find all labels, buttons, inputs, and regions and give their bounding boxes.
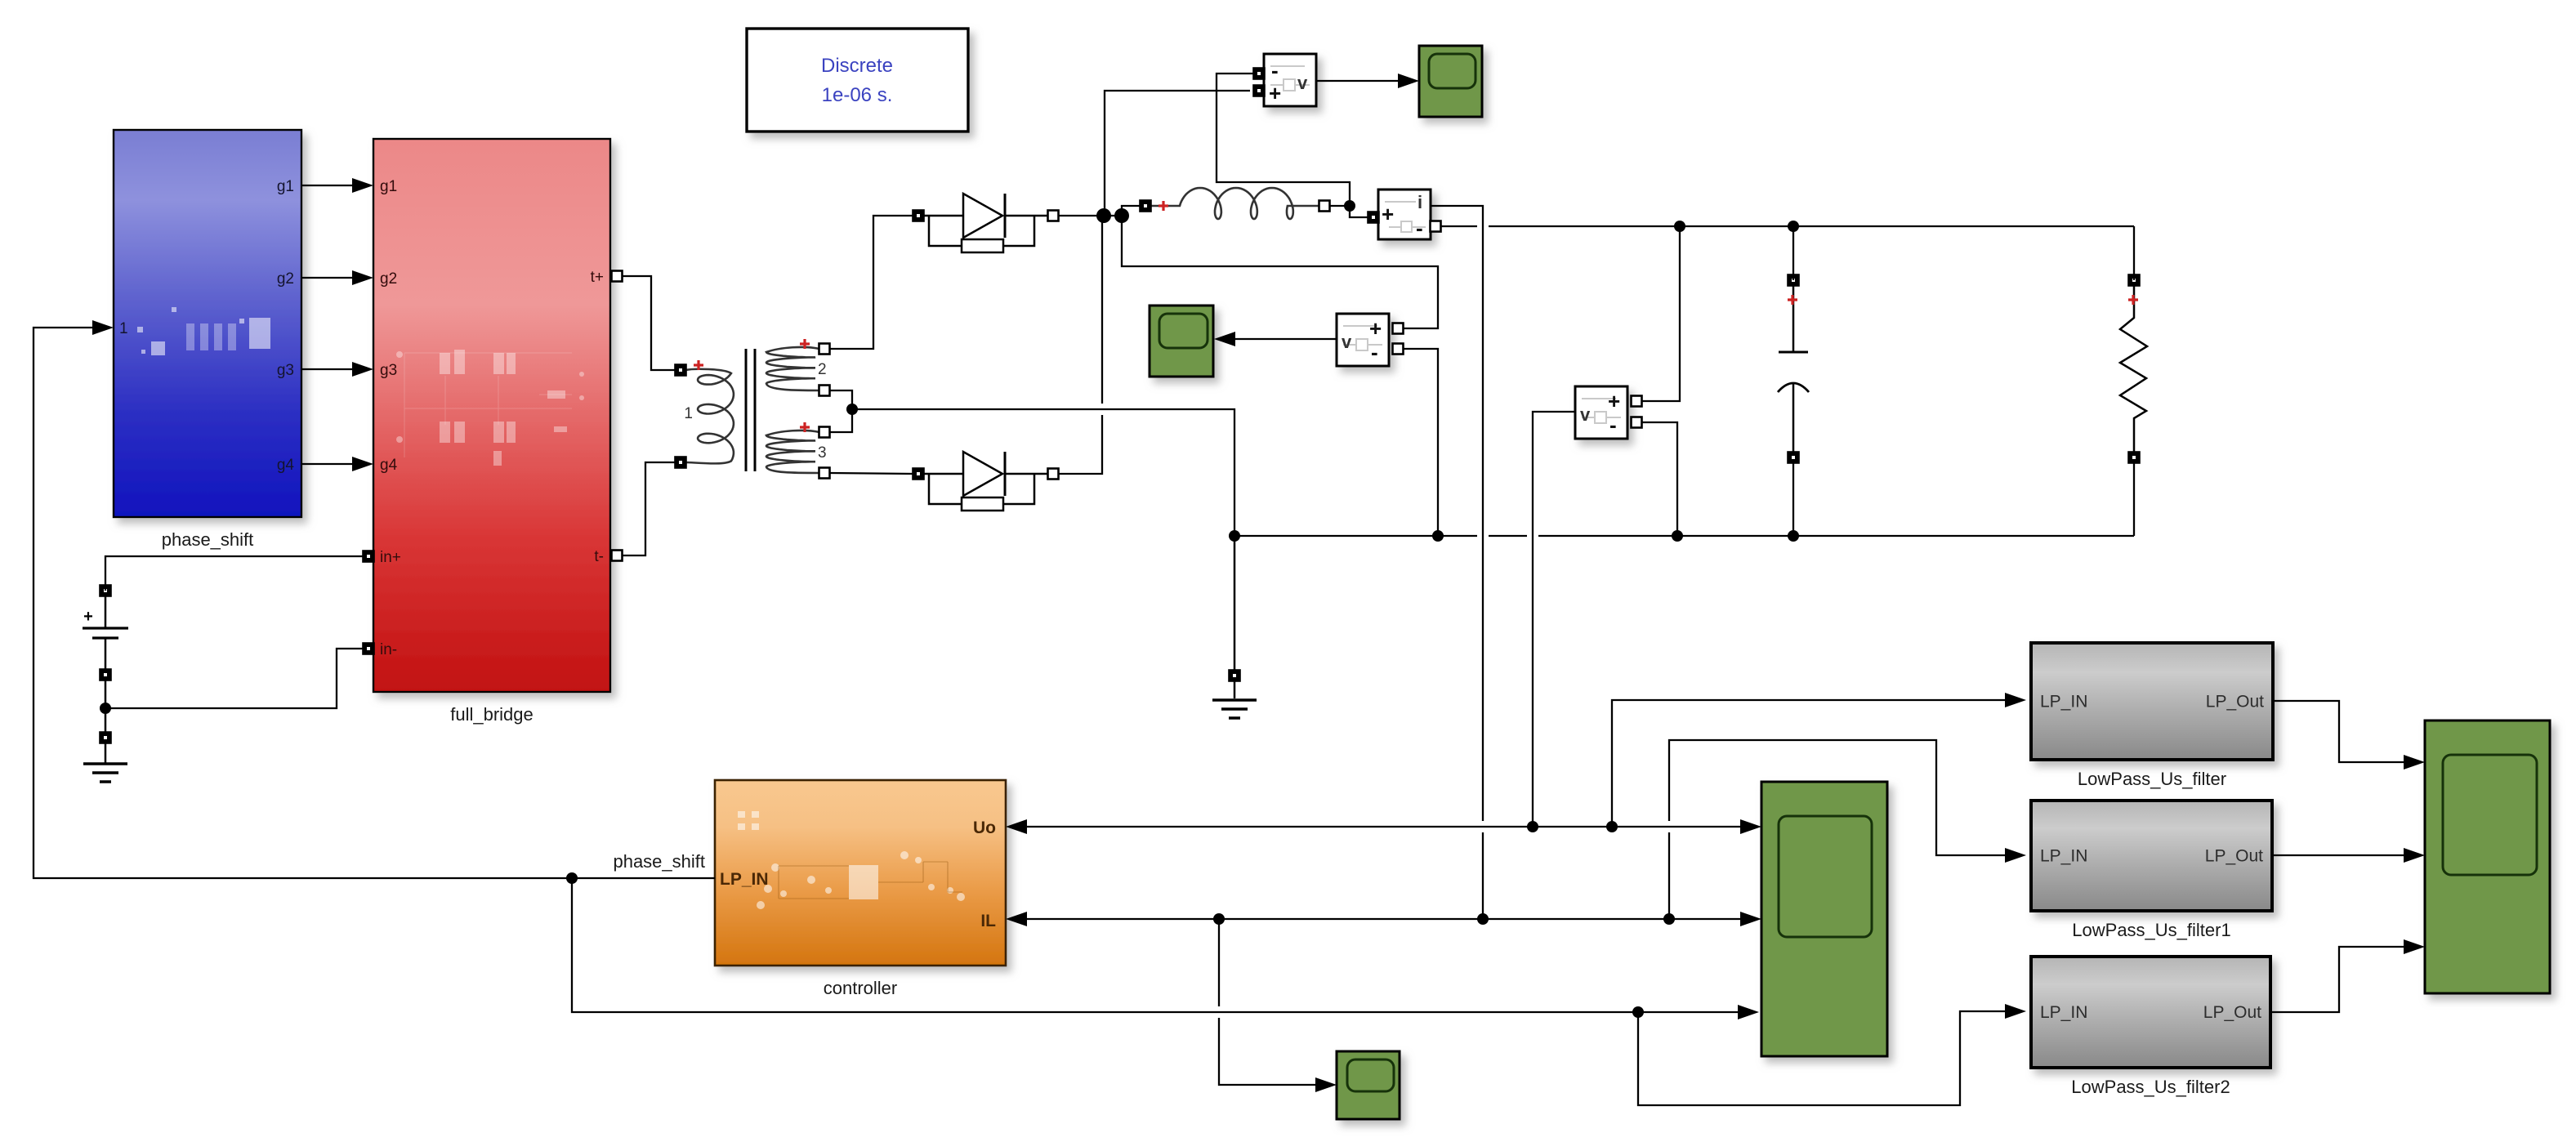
transformer T1 secondary winding, pin 3 bbox=[766, 422, 830, 479]
svg-text:in+: in+ bbox=[380, 549, 401, 566]
wire node A down to voltmeter U2 + bbox=[1122, 216, 1438, 328]
arrowhead into Scope2 (right side input) bbox=[1214, 332, 1235, 346]
port full_bridge t+ bbox=[612, 271, 623, 282]
svg-text:IL: IL bbox=[980, 912, 996, 930]
svg-text:g2: g2 bbox=[277, 270, 294, 288]
svg-text:1e-06 s.: 1e-06 s. bbox=[822, 84, 893, 106]
resistor R1 (load) bbox=[2120, 275, 2147, 463]
wire IL signal line bbox=[1011, 918, 1756, 920]
arrowhead into LowPass_Us_filter1 LP_IN bbox=[2005, 848, 2026, 863]
arrowhead into Scope4 input 1 bbox=[1740, 819, 1761, 834]
arrowhead into controller Uo bbox=[1006, 819, 1027, 834]
node IL at i output (junction) bbox=[1477, 913, 1489, 925]
svg-text:t-: t- bbox=[594, 548, 604, 565]
subsystem block controller bbox=[715, 780, 1006, 966]
capacitor C1 bbox=[1778, 275, 1809, 463]
svg-text:in-: in- bbox=[380, 641, 397, 658]
node IL branch to scope3 (junction) bbox=[1213, 913, 1225, 925]
svg-text:g3: g3 bbox=[380, 362, 397, 379]
svg-text:+: + bbox=[1608, 389, 1620, 413]
wire node A to D2 cathode (lower) bbox=[1058, 415, 1102, 474]
svg-text:g1: g1 bbox=[277, 178, 294, 195]
svg-text:+: + bbox=[83, 608, 93, 626]
voltage measurement U3 (output voltage Uo) bbox=[1575, 386, 1627, 439]
svg-text:-: - bbox=[1371, 340, 1378, 364]
wire D1 cathode to node A bbox=[1058, 215, 1122, 216]
svg-text:v: v bbox=[1297, 73, 1308, 93]
node IL branch to filter1 (junction) bbox=[1663, 913, 1675, 925]
ground G1 bbox=[83, 680, 127, 782]
wire I1 - to output + rail (left) bbox=[1440, 225, 1477, 227]
svg-text:-: - bbox=[1271, 58, 1279, 83]
node node B (junction) bbox=[1344, 200, 1355, 212]
wire phase_shift signal branch down bbox=[572, 878, 1753, 1012]
subsystem block LowPass_Us_filter1 bbox=[2031, 801, 2272, 911]
arrowhead into phase_shift input 1 bbox=[92, 320, 114, 335]
port full_bridge in+ bbox=[364, 551, 374, 562]
arrowhead into Scope3 bbox=[1315, 1077, 1337, 1092]
subsystem block full_bridge bbox=[373, 139, 610, 692]
svg-text:-: - bbox=[1416, 216, 1423, 240]
svg-text:-: - bbox=[1609, 413, 1617, 437]
svg-text:full_bridge: full_bridge bbox=[450, 704, 534, 725]
svg-text:Uo: Uo bbox=[973, 819, 996, 837]
arrowhead into Scope5 input 1 bbox=[2404, 755, 2425, 770]
DC voltage source E1 (battery) bbox=[83, 586, 128, 680]
subsystem block LowPass_Us_filter bbox=[2031, 643, 2273, 760]
port U1 + bbox=[1254, 86, 1265, 96]
arrowhead into Scope5 input 3 bbox=[2404, 939, 2425, 954]
svg-text:LP_Out: LP_Out bbox=[2205, 847, 2263, 866]
arrowhead into LowPass_Us_filter2 LP_IN bbox=[2005, 1004, 2026, 1019]
wire winding2 bottom to center tap bbox=[829, 390, 852, 432]
svg-text:g4: g4 bbox=[277, 457, 295, 474]
port full_bridge in- bbox=[364, 644, 374, 654]
svg-text:1: 1 bbox=[684, 405, 693, 422]
node center tap (junction) bbox=[846, 404, 858, 415]
svg-text:g4: g4 bbox=[380, 457, 398, 474]
scope Scope3 (IL small) bbox=[1337, 1051, 1400, 1119]
wire E1- junction to full_bridge in- bbox=[105, 649, 363, 708]
svg-text:LP_IN: LP_IN bbox=[2040, 847, 2087, 866]
svg-text:LowPass_Us_filter: LowPass_Us_filter bbox=[2078, 769, 2226, 789]
wire IL signal to LowPass_Us_filter1 (lower) bbox=[1668, 832, 1670, 919]
node node A j2 (junction) bbox=[1114, 208, 1129, 223]
node Uo at U3 output (junction) bbox=[1527, 821, 1538, 832]
arrowhead g2 into full_bridge bbox=[352, 270, 373, 285]
port I1 + bbox=[1368, 212, 1379, 223]
svg-text:LP_IN: LP_IN bbox=[2040, 1003, 2087, 1022]
voltage measurement U1 (inductor voltage) bbox=[1264, 54, 1316, 106]
wire t+ to primary winding bbox=[617, 276, 676, 370]
svg-text:v: v bbox=[1342, 332, 1352, 352]
svg-text:controller: controller bbox=[824, 978, 897, 998]
svg-text:+: + bbox=[1369, 316, 1382, 341]
node phase_shift branch (junction) bbox=[566, 872, 578, 884]
wire rail to resistor R1 bbox=[2133, 226, 2135, 280]
node Uo branch to filter (junction) bbox=[1606, 821, 1618, 832]
wire g4 signal bbox=[301, 463, 368, 465]
wire phase_shift signal to LowPass_Us_filter2 bbox=[1638, 1011, 2020, 1105]
svg-text:phase_shift: phase_shift bbox=[162, 529, 254, 550]
arrowhead into controller IL bbox=[1006, 912, 1027, 926]
svg-text:LP_IN: LP_IN bbox=[720, 870, 769, 889]
transformer T1 core bbox=[746, 349, 755, 471]
port U3 - bbox=[1632, 417, 1642, 428]
arrowhead into Scope4 input 2 bbox=[1740, 912, 1761, 926]
svg-text:g3: g3 bbox=[277, 362, 294, 379]
wire I1 i signal down to IL line (lower) bbox=[1482, 832, 1484, 919]
wire ground rail seg1 bbox=[1234, 535, 1477, 537]
arrowhead into LowPass_Us_filter LP_IN bbox=[2005, 693, 2026, 707]
svg-text:LowPass_Us_filter1: LowPass_Us_filter1 bbox=[2072, 920, 2230, 940]
wire Uo signal to LowPass_Us_filter bbox=[1612, 700, 2020, 827]
annotation Discrete 1e-06 s. bbox=[747, 29, 968, 132]
arrowhead into Scope1 bbox=[1398, 74, 1419, 88]
svg-text:+: + bbox=[1382, 202, 1394, 226]
wire g1 signal bbox=[301, 185, 368, 186]
wire center tap to ground rail bbox=[852, 409, 1234, 536]
svg-text:Discrete: Discrete bbox=[821, 55, 893, 77]
port U1 - bbox=[1254, 69, 1265, 79]
svg-text:LP_Out: LP_Out bbox=[2206, 693, 2264, 712]
wire U1 - to node B bbox=[1217, 74, 1350, 206]
node node A j1 (junction) bbox=[1096, 208, 1111, 223]
arrowhead into Scope5 input 2 bbox=[2404, 848, 2425, 863]
inductor L1 bbox=[1141, 188, 1330, 219]
wire U2 - to ground rail bbox=[1403, 349, 1438, 536]
svg-text:phase_shift: phase_shift bbox=[613, 851, 705, 872]
wire g2 signal bbox=[301, 277, 368, 279]
wire E1+ to full_bridge in+ bbox=[105, 556, 363, 591]
wire node A to D2 cathode (upper) bbox=[1101, 216, 1103, 404]
svg-text:+: + bbox=[1269, 81, 1281, 105]
wire rail to capacitor C1 bbox=[1792, 226, 1794, 280]
wire node B to ammeter I1 + bbox=[1350, 206, 1369, 217]
svg-text:2: 2 bbox=[818, 361, 827, 378]
diode D1 with RC snubber bbox=[913, 194, 1059, 252]
voltage measurement U2 (rectified voltage) bbox=[1337, 314, 1389, 366]
transformer T1 secondary winding, pin 2 bbox=[766, 339, 830, 396]
wire I1 - to output + rail (right) bbox=[1489, 225, 2134, 227]
wire node A to inductor L1 bbox=[1122, 206, 1141, 216]
wire LowPass_Us_filter1 LP_Out to Scope5 in2 bbox=[2272, 854, 2419, 856]
arrowhead into Scope4 input 3 bbox=[1738, 1005, 1759, 1019]
wire winding2 top to diode D1 anode bbox=[829, 216, 913, 349]
svg-text:3: 3 bbox=[818, 444, 827, 462]
svg-text:g2: g2 bbox=[380, 270, 397, 288]
port U2 + bbox=[1393, 323, 1404, 334]
diode D2 with RC snubber bbox=[913, 452, 1059, 511]
subsystem block phase_shift bbox=[114, 130, 301, 517]
svg-text:v: v bbox=[1580, 404, 1591, 425]
wire phase_shift signal: controller LP_IN to phase_shift input 1 bbox=[33, 328, 715, 878]
wire ground rail seg2 bbox=[1489, 535, 1527, 537]
node rail at U2 - (junction) bbox=[1432, 530, 1444, 542]
wire winding3 bottom to diode D2 anode bbox=[829, 473, 913, 474]
node rail at U3 - (junction) bbox=[1672, 530, 1683, 542]
transformer T1 primary winding, pin 1 bbox=[676, 360, 734, 468]
node source minus node (junction) bbox=[100, 703, 111, 714]
wire inductor to node B bbox=[1329, 205, 1350, 207]
svg-text:LP_IN: LP_IN bbox=[2040, 693, 2087, 712]
node rail at capacitor (junction) bbox=[1788, 530, 1799, 542]
port full_bridge t- bbox=[612, 551, 623, 561]
svg-text:LP_Out: LP_Out bbox=[2203, 1003, 2261, 1022]
wire LowPass_Us_filter LP_Out to Scope5 in1 bbox=[2273, 701, 2419, 762]
wire U3 - to ground rail bbox=[1641, 422, 1677, 536]
port U3 + bbox=[1632, 396, 1642, 407]
wire node A up to voltmeter U1 + bbox=[1105, 91, 1250, 216]
svg-text:i: i bbox=[1417, 192, 1422, 212]
wire ground rail seg3 bbox=[1538, 535, 2134, 537]
scope Scope5 (3-input right) bbox=[2425, 720, 2550, 993]
wire t- to primary winding bbox=[617, 462, 676, 555]
scope Scope4 (3-input middle) bbox=[1761, 782, 1887, 1056]
scope Scope1 (inductor voltage) bbox=[1419, 46, 1482, 117]
node phase_shift branch to filter2 (junction) bbox=[1632, 1006, 1644, 1018]
wire IL signal to Scope3 (lower) bbox=[1219, 1018, 1331, 1085]
node rail at ground G2 (junction) bbox=[1229, 530, 1240, 542]
wire LowPass_Us_filter2 LP_Out to Scope5 in3 bbox=[2270, 947, 2419, 1012]
wire Uo signal line bbox=[1011, 826, 1756, 828]
svg-text:1: 1 bbox=[119, 320, 128, 337]
node rail to capacitor (junction) bbox=[1788, 221, 1799, 232]
scope Scope2 (rectified voltage) bbox=[1150, 306, 1213, 377]
wire I1 i signal down to IL line (upper) bbox=[1431, 206, 1483, 821]
wire U3 + to output rail bbox=[1641, 226, 1680, 401]
arrowhead g4 into full_bridge bbox=[352, 457, 373, 471]
current measurement I1 (IL) bbox=[1378, 190, 1431, 240]
wire IL signal to LowPass_Us_filter1 (upper) bbox=[1669, 740, 2020, 855]
port U2 - bbox=[1393, 344, 1404, 355]
svg-text:LowPass_Us_filter2: LowPass_Us_filter2 bbox=[2071, 1077, 2230, 1097]
wire U3 v output (Uo signal) bbox=[1533, 412, 1575, 827]
svg-text:g1: g1 bbox=[380, 178, 397, 195]
arrowhead g3 into full_bridge bbox=[352, 362, 373, 377]
wire U1 v output to Scope1 bbox=[1316, 80, 1413, 82]
node rail to U3 + (junction) bbox=[1674, 221, 1685, 232]
port I1 - bbox=[1431, 221, 1441, 232]
subsystem block LowPass_Us_filter2 bbox=[2031, 957, 2270, 1068]
wire U2 v output to Scope2 bbox=[1235, 338, 1337, 340]
wire g3 signal bbox=[301, 368, 368, 370]
svg-text:t+: t+ bbox=[591, 269, 604, 286]
arrowhead g1 into full_bridge bbox=[352, 178, 373, 193]
wire capacitor C1 to ground rail bbox=[1792, 462, 1794, 536]
wire IL signal to Scope3 (upper) bbox=[1218, 919, 1220, 1006]
ground G2 bbox=[1212, 541, 1257, 718]
wire resistor R1 to ground rail bbox=[2133, 462, 2135, 536]
